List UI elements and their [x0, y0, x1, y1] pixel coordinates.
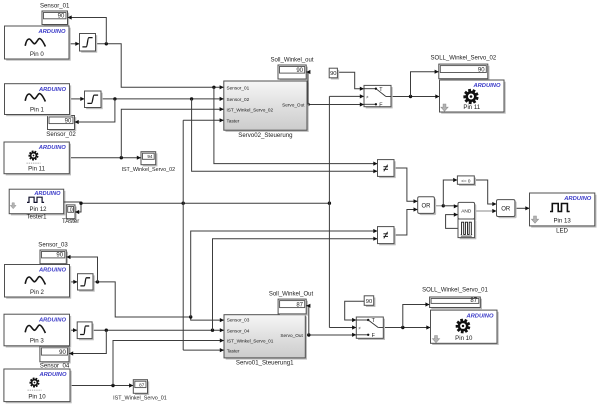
svg-text:90: 90	[65, 118, 72, 124]
svg-text:Servo_Out: Servo_Out	[280, 333, 303, 338]
wire branch to SOLL_Winkel_Servo_02 display	[411, 70, 439, 97]
svg-text:Pin 10: Pin 10	[455, 335, 473, 342]
display Soll_Winkel_out	[270, 58, 313, 81]
wire branch to Sensor_01 display	[68, 15, 107, 43]
svg-text:90: 90	[296, 68, 303, 74]
relational operator 2 (not equal)	[378, 227, 396, 246]
svg-text:Pin 10: Pin 10	[28, 393, 46, 400]
wire Pin3 to Saturation4	[70, 328, 78, 332]
constant 90 (bottom)	[364, 296, 375, 307]
arduino analog input Pin 1	[5, 84, 72, 117]
wire Compare To Zero output to OR2 input 1	[474, 180, 496, 206]
logical operator AND	[458, 202, 476, 220]
svg-text:Sensor_01: Sensor_01	[227, 86, 250, 91]
svg-text:Pin 11: Pin 11	[463, 104, 480, 111]
display Sensor_03	[38, 242, 68, 266]
arduino analog input Pin 0	[5, 26, 71, 61]
wire Taster control vertical to switches	[328, 96, 330, 327]
wire Relational1 output to OR1 input 1	[394, 168, 418, 203]
wire Saturation4 output to Servo01 Sensor_04 input	[92, 328, 224, 332]
arduino digital input Tester1 Pin 12	[9, 189, 65, 220]
display TAster	[62, 205, 79, 225]
wire Saturation2 output to Servo02 Sensor_02 input	[101, 97, 224, 101]
wire Servo01 Servo_Out to Switch2 false input	[305, 333, 356, 337]
saturation block 2	[85, 91, 103, 109]
svg-text:Pin 12: Pin 12	[29, 207, 47, 213]
svg-text:Sensor_01: Sensor_01	[40, 3, 70, 10]
svg-text:IST_Winkel_Servo_01: IST_Winkel_Servo_01	[113, 396, 167, 402]
wire Saturation1 output to Servo02 Sensor_01 input	[96, 42, 224, 89]
wire branch to Soll_Winkel_Out display	[306, 304, 310, 335]
svg-text:<= 0: <= 0	[461, 178, 471, 183]
arduino digital output LED Pin 13	[530, 193, 597, 235]
svg-text:90: 90	[56, 253, 63, 259]
svg-text:ARDUINO: ARDUINO	[38, 372, 67, 378]
wire branch to Sensor_03 display	[66, 255, 97, 282]
wire Taster to Servo01 Taster input	[183, 348, 224, 352]
arduino analog input Pin 2	[5, 265, 72, 299]
svg-text:SOLL_Winkel_Servo_02: SOLL_Winkel_Servo_02	[431, 56, 497, 62]
wire Pin11 output to IST_Winkel_Servo_02 display	[69, 156, 141, 160]
display Soll_Winkel_Out	[269, 292, 314, 316]
wire Taster to Switch1 control input	[329, 94, 364, 98]
wire branch to Soll_Winkel_out display	[306, 70, 310, 105]
svg-text:Pin 11: Pin 11	[28, 166, 45, 173]
svg-text:ARDUINO: ARDUINO	[37, 29, 66, 35]
wire Relational2 output to OR1 input 2	[394, 207, 418, 235]
svg-text:ARDUINO: ARDUINO	[472, 83, 501, 89]
svg-text:Taster: Taster	[227, 348, 240, 353]
display SOLL_Winkel_Servo_02	[431, 56, 497, 81]
logical operator OR2	[497, 200, 517, 219]
wire Sensor_01 branch to Relational1 input 1	[214, 87, 378, 165]
svg-text:LED: LED	[556, 228, 568, 235]
svg-text:90: 90	[366, 299, 372, 305]
svg-text:Pin 0: Pin 0	[30, 51, 45, 58]
display Sensor_02	[46, 116, 76, 139]
svg-text:0: 0	[70, 207, 73, 213]
relational operator 1 (not equal)	[378, 160, 396, 179]
svg-text:Soll_Winkel_Out: Soll_Winkel_Out	[269, 292, 314, 298]
svg-text:Sensor_02: Sensor_02	[227, 97, 250, 102]
svg-text:OR: OR	[501, 207, 511, 213]
svg-text:Sensor_04: Sensor_04	[40, 363, 70, 370]
subsystem Servo01_Steuerung1	[224, 315, 307, 367]
wire Taster to Servo02 Taster input	[183, 118, 224, 122]
svg-text:90: 90	[59, 350, 66, 356]
switch Switch1	[364, 85, 393, 108]
wire to Compare To Zero	[443, 178, 457, 206]
wire Servo02 Servo_Out to Switch1 false input	[306, 102, 364, 106]
svg-text:Pin 3: Pin 3	[30, 338, 45, 345]
svg-text:OR: OR	[422, 204, 432, 210]
wire branch to Servo01 IST input	[113, 338, 224, 385]
svg-text:Pin 2: Pin 2	[30, 289, 45, 296]
wire Saturation3 output to Servo01 Sensor_03 input	[93, 280, 224, 322]
svg-text:Sensor_02: Sensor_02	[46, 131, 76, 138]
svg-text:94: 94	[147, 154, 153, 159]
svg-text:IST_Winkel_Servo_02: IST_Winkel_Servo_02	[227, 107, 274, 112]
wire OR2 output to LED block	[515, 206, 530, 210]
svg-text:ARDUINO: ARDUINO	[38, 87, 67, 93]
wire branch to Sensor_02 display	[75, 99, 115, 124]
display Sensor_01	[40, 3, 70, 27]
wire branch to SOLL_Winkel_Servo_01 display	[403, 302, 430, 327]
wire Constant90 to Switch1 true input	[337, 72, 364, 91]
wire Pin2 to Saturation3	[70, 280, 78, 284]
wire Taster vertical trunk	[182, 120, 184, 350]
wire branch to Servo02 IST input	[121, 107, 224, 158]
display Sensor_04	[40, 346, 71, 369]
wire Taster to Switch2 control input	[329, 325, 356, 329]
wire branch to Sensor_04 display	[69, 330, 106, 355]
svg-text:87: 87	[139, 382, 145, 387]
wire Pin0 to Saturation1	[69, 42, 80, 46]
arduino analog input Pin 3	[4, 314, 71, 347]
svg-text:AND: AND	[461, 209, 472, 215]
wire Pin1 to Saturation2	[70, 97, 85, 101]
svg-text:ARDUINO: ARDUINO	[563, 196, 592, 202]
wire Switch2 output to Pin10 servo write block	[383, 325, 430, 329]
pulse generator	[458, 219, 476, 239]
wire Taster signal horizontal run	[81, 202, 331, 205]
svg-text:ARDUINO: ARDUINO	[38, 317, 67, 323]
wire Constant90b to Switch2 true input (exits left)	[345, 301, 365, 322]
svg-text:Sensor_03: Sensor_03	[227, 317, 250, 322]
svg-text:90: 90	[478, 67, 485, 73]
display IST_Winkel_Servo_01	[113, 380, 167, 402]
compare to zero block	[457, 176, 476, 186]
svg-text:Sensor_03: Sensor_03	[38, 242, 68, 249]
wire Sensor_04 branch to Relational2 input 2	[213, 237, 378, 331]
svg-text:ARDUINO: ARDUINO	[33, 191, 61, 197]
svg-text:ARDUINO: ARDUINO	[38, 268, 67, 274]
wire Sensor_03 branch to Relational2 input 1	[191, 229, 378, 317]
switch Switch2	[356, 317, 385, 340]
subsystem Servo02_Steuerung	[224, 81, 309, 139]
svg-text:Pin 13: Pin 13	[553, 218, 571, 225]
constant 90 (top)	[329, 68, 339, 79]
svg-text:90: 90	[58, 14, 65, 20]
svg-text:Sensor_04: Sensor_04	[227, 328, 250, 333]
svg-text:Servo_Out: Servo_Out	[282, 103, 305, 108]
arduino servo write Pin 11 (SOLL)	[440, 80, 506, 114]
svg-text:87: 87	[470, 298, 477, 304]
saturation block 4	[77, 322, 94, 340]
display SOLL_Winkel_Servo_01	[422, 288, 488, 310]
logical operator OR1	[418, 197, 436, 215]
svg-text:ARDUINO: ARDUINO	[38, 145, 67, 151]
svg-text:SOLL_Winkel_Servo_01: SOLL_Winkel_Servo_01	[422, 288, 488, 294]
saturation block 3	[78, 274, 95, 292]
svg-text:87: 87	[296, 302, 303, 308]
saturation block 1	[80, 34, 98, 53]
wire Pin10 output to IST_Winkel_Servo_01 display	[70, 383, 133, 387]
wire AND output to OR2 input 2	[475, 209, 497, 213]
wire Tester1 output to TAster display	[64, 202, 83, 215]
svg-text:Servo02_Steuerung: Servo02_Steuerung	[238, 132, 292, 139]
wire Pulse Generator to AND input 2	[446, 213, 458, 229]
svg-text:Servo01_Steuerung1: Servo01_Steuerung1	[236, 360, 294, 367]
svg-text:TAster: TAster	[62, 219, 79, 225]
display IST_Winkel_Servo_02	[121, 152, 175, 173]
arduino servo read Pin 11	[4, 142, 71, 175]
svg-text:ARDUINO: ARDUINO	[465, 313, 494, 319]
svg-text:Soll_Winkel_out: Soll_Winkel_out	[270, 58, 313, 64]
wire OR1 output junction	[434, 204, 445, 207]
wire to AND input 1	[443, 204, 458, 208]
svg-text:IST_Winkel_Servo_02: IST_Winkel_Servo_02	[121, 167, 175, 173]
svg-text:90: 90	[330, 71, 336, 77]
arduino servo write Pin 10 (SOLL)	[431, 310, 499, 345]
svg-text:Tester1: Tester1	[27, 214, 48, 221]
wire Switch1 output to Pin11 servo write block	[391, 94, 440, 98]
wire Sensor_02 branch to Relational1 input 2	[192, 99, 378, 173]
svg-text:IST_Winkel_Servo_01: IST_Winkel_Servo_01	[227, 339, 274, 344]
svg-text:Pin 1: Pin 1	[30, 106, 45, 113]
svg-text:Taster: Taster	[227, 119, 240, 124]
arduino servo read Pin 10	[4, 369, 72, 403]
